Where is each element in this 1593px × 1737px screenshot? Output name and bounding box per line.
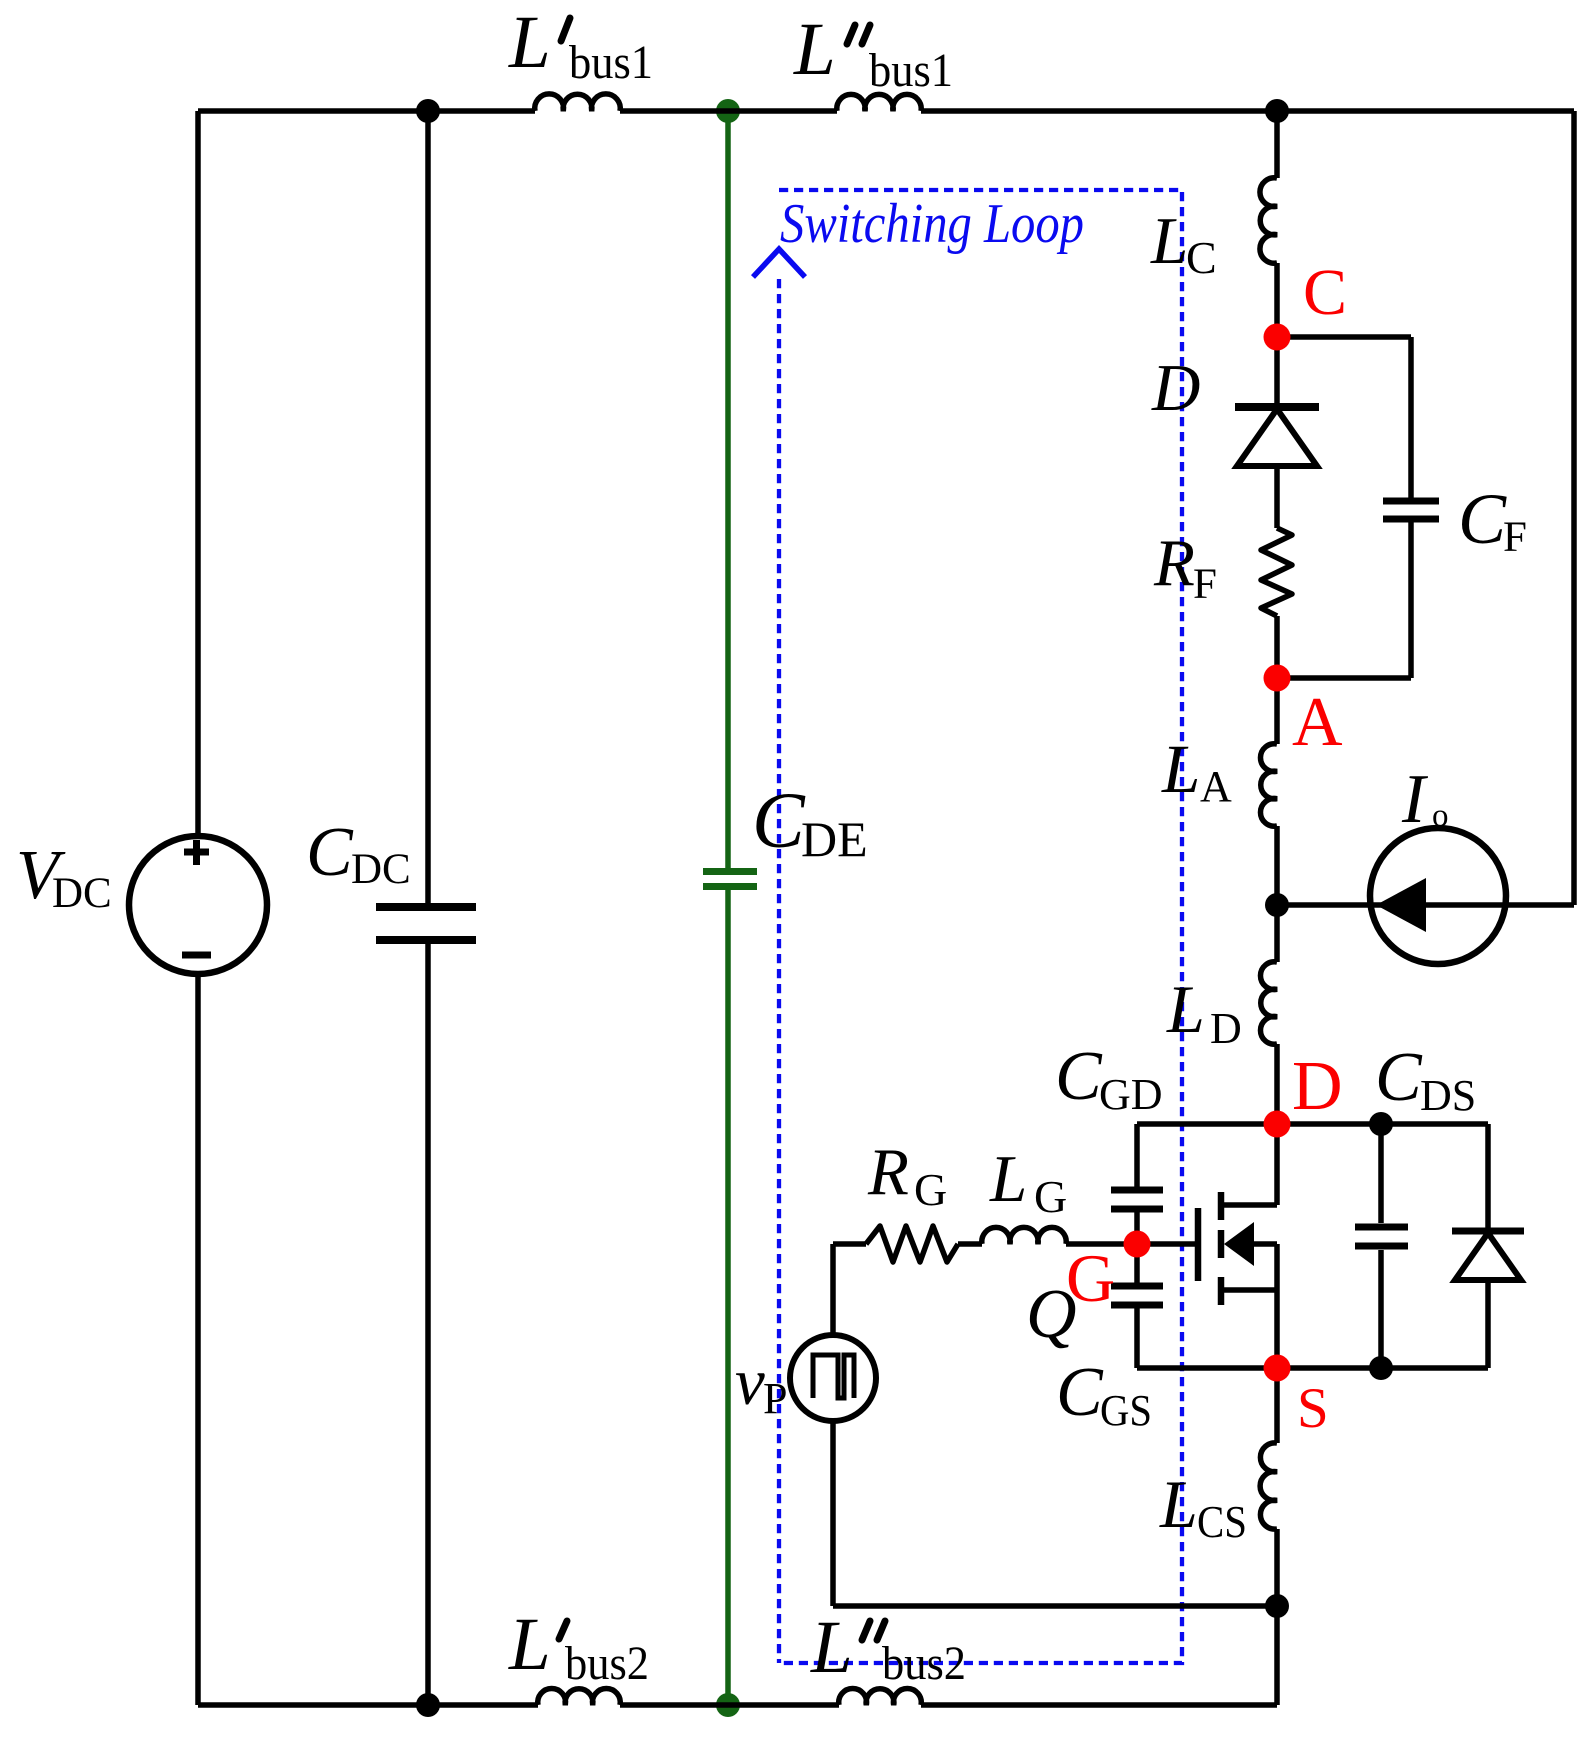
svg-text:DE: DE <box>801 811 868 867</box>
svg-text:D: D <box>1210 1004 1242 1053</box>
svg-text:C: C <box>1055 1038 1103 1115</box>
svg-text:L: L <box>1159 1466 1198 1542</box>
svg-text:R: R <box>1153 526 1195 600</box>
svg-text:P: P <box>763 1374 787 1423</box>
svg-text:D: D <box>1151 351 1200 425</box>
svg-text:F: F <box>1193 561 1217 608</box>
svg-text:C: C <box>752 778 806 865</box>
svg-text:C: C <box>1186 232 1217 283</box>
svg-text:bus1: bus1 <box>569 36 653 89</box>
svg-text:A: A <box>1292 684 1343 761</box>
svg-text:GS: GS <box>1100 1386 1152 1435</box>
svg-text:o: o <box>1432 798 1449 834</box>
svg-text:I: I <box>1401 761 1429 838</box>
svg-text:A: A <box>1200 762 1232 811</box>
svg-text:DS: DS <box>1420 1071 1476 1120</box>
svg-text:L: L <box>793 8 836 91</box>
svg-text:L: L <box>810 1606 853 1689</box>
svg-text:G: G <box>914 1164 947 1215</box>
svg-text:DC: DC <box>52 870 112 917</box>
svg-text:R: R <box>867 1135 909 1209</box>
svg-text:C: C <box>1056 1354 1104 1431</box>
svg-text:D: D <box>1292 1048 1343 1125</box>
svg-text:L: L <box>508 1 551 84</box>
svg-text:C: C <box>1458 479 1507 559</box>
svg-text:S: S <box>1297 1377 1329 1440</box>
svg-text:L: L <box>1150 204 1188 278</box>
svg-text:C: C <box>1303 256 1347 329</box>
svg-text:L: L <box>508 1603 551 1686</box>
svg-text:DC: DC <box>351 846 411 893</box>
svg-text:CS: CS <box>1197 1497 1247 1547</box>
svg-text:C: C <box>1375 1039 1423 1116</box>
svg-text:L: L <box>1161 731 1200 807</box>
svg-text:L: L <box>989 1142 1027 1216</box>
svg-text:bus2: bus2 <box>882 1637 966 1690</box>
svg-text:F: F <box>1503 514 1527 561</box>
svg-text:G: G <box>1034 1171 1067 1222</box>
svg-text:GD: GD <box>1099 1070 1163 1119</box>
svg-text:G: G <box>1066 1240 1115 1316</box>
svg-text:v: v <box>735 1345 765 1419</box>
svg-text:bus1: bus1 <box>869 44 953 97</box>
svg-text:C: C <box>306 814 354 891</box>
svg-text:Switching Loop: Switching Loop <box>780 193 1084 255</box>
svg-text:bus2: bus2 <box>565 1637 649 1690</box>
svg-text:L: L <box>1166 971 1205 1047</box>
